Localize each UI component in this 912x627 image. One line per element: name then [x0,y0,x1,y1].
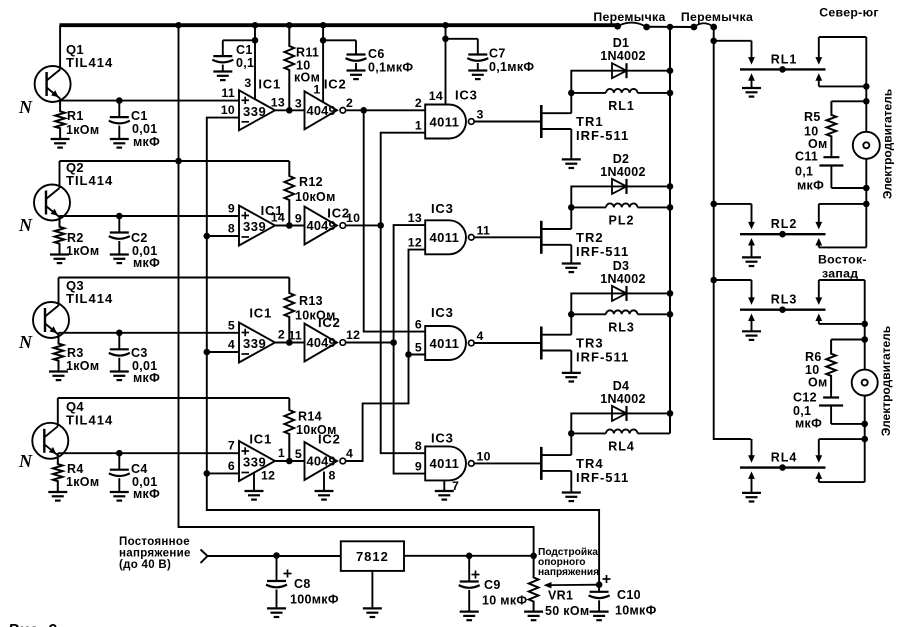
ground C8 [267,608,286,617]
node motor1 top / RL1 bottom contact [863,83,870,90]
transistor Q2 TIL414 [34,161,70,221]
svg-text:9: 9 [415,459,422,473]
svg-text:C3: C3 [131,346,148,360]
node ref bus / row3 minus [204,349,211,356]
capacitor C1 0,1 (comparator supply) [212,40,255,71]
pin label IC2 input row1 [295,96,302,110]
op-amp IC1 comparator 339 (row 1) [239,90,275,130]
svg-text:10: 10 [346,211,360,225]
resistor R3 1kOm [54,333,64,372]
svg-text:TR2: TR2 [576,230,604,245]
caption fragment [8,622,57,627]
node feed bus RL2 [710,201,717,208]
svg-text:13: 13 [271,95,285,109]
pin label IC2 input row3 [288,329,302,343]
svg-text:1кОм: 1кОм [66,123,99,137]
svg-text:запад: запад [822,267,858,281]
svg-text:Перемычка: Перемычка [593,10,665,24]
contact RL3 left-top arm [748,280,755,305]
diode D1 1N4002 [612,63,627,78]
wire ref bus to IC1 minus input row3 [207,351,239,353]
wire DC input [208,555,341,557]
wire relay coil RL3 right [638,313,671,315]
svg-text:IC3: IC3 [455,87,478,102]
wire IC2 pin1 Vcc stub [322,25,324,102]
wire IC2 pin8 ground stub [323,472,325,492]
capacitor C1 0,01 [109,101,130,139]
svg-text:C12: C12 [793,391,817,405]
svg-text:1кОм: 1кОм [66,359,99,373]
ground IC2 pin8 [315,491,334,500]
node +12V bus / row2 rail [175,158,182,165]
label C1 0,1 [236,43,254,70]
diode D4 1N4002 [612,406,627,421]
node pin3/C1 branch [252,37,259,44]
contact RL4 right-top arm [815,439,864,463]
label TR4 [576,456,629,485]
pin labels IC1 inputs row4 [228,439,235,473]
label R5 [804,110,828,151]
wire feed to RL2 contact [714,203,752,205]
label Q3 [66,278,113,306]
label C10 [615,588,657,618]
ground TR2 [562,264,581,273]
node top-bus junction x=178 [175,22,181,28]
label D2 [600,152,646,179]
svg-text:Электродвигатель: Электродвигатель [879,326,893,436]
svg-text:10кОм: 10кОм [295,190,336,204]
pin labels IC3 #4 inputs [415,439,422,473]
wire relay feed bus [714,27,751,439]
svg-text:1N4002: 1N4002 [600,165,646,179]
node row3 output junction [390,339,397,346]
ground R3 [49,372,68,381]
transistor TR3 IRF-511 [541,327,571,360]
node row4 net / IC3c pin5 [405,351,412,358]
svg-text:IRF-511: IRF-511 [576,128,629,143]
label IC1 row3 [249,306,272,321]
wire feed to RL3 contact [714,279,752,281]
svg-text:1: 1 [313,83,320,97]
inverter IC2 4049 (row 1) [305,91,346,129]
node feed bus RL1 [710,38,717,45]
pin label IC3 #2 output [477,223,491,237]
pin label IC2 input row4 [295,447,302,461]
wire IC3c pin5 [409,354,426,356]
svg-text:11: 11 [288,329,302,343]
svg-text:мкФ: мкФ [133,135,160,149]
resistor R14 10kOm [285,398,295,461]
svg-text:2: 2 [278,328,285,342]
wire diode D4 branch [571,413,670,433]
svg-text:N: N [18,451,33,471]
svg-text:C4: C4 [131,462,148,476]
input terminal chevron [201,550,208,564]
svg-text:13: 13 [408,211,422,225]
label R3 [66,346,99,373]
svg-text:TR4: TR4 [576,456,604,471]
label C9 [482,578,527,608]
wire row3 net to IC3b pin13 and IC3d pin9 [394,225,426,474]
wire Q2 emitter to IC1 input [60,215,240,217]
node motor1 bottom / C11 [863,185,870,192]
svg-text:Рис. 9: Рис. 9 [8,622,57,627]
wire IC3 #3 output to TR3 gate [474,342,541,344]
svg-text:TR3: TR3 [576,336,604,351]
node coil RL1 / right bus [667,90,674,97]
svg-text:D3: D3 [613,259,630,273]
relay coil PL2 [606,203,638,207]
label R1 [66,109,99,137]
svg-text:339: 339 [243,104,266,119]
label RL4 contact [771,451,798,465]
capacitor C2 0,01 [109,216,130,255]
svg-text:10: 10 [477,449,491,463]
resistor R12 10kOm [285,161,295,226]
ground RL1 contact [742,88,761,97]
relay coil RL3 [606,310,638,314]
relay coil RL4 [606,429,638,433]
svg-text:R6: R6 [805,350,822,364]
jumper 2 (Перемычка) [691,23,718,30]
capacitor C4 0,01 [109,453,130,492]
node TR3 drain / coil [568,311,575,318]
ground IC1 pin12 [245,491,264,500]
pin label 8 IC2 [329,469,336,483]
contact RL3 right-top arm [815,280,864,305]
pin label IC1 output row1 [271,95,285,109]
node TR4 drain / coil [568,430,575,437]
node TR1 drain / coil [568,90,575,97]
pin label IC2 output row1 [346,96,353,110]
light arrows N for Q4 [18,451,33,471]
wire IC1 pin12 ground stub [253,473,255,492]
wire ref bus to IC1 minus input row4 [207,472,239,474]
diode D3 1N4002 [612,286,627,301]
svg-text:6: 6 [415,317,422,331]
pin label 3 IC1 [244,76,251,90]
svg-text:C11: C11 [795,150,818,164]
svg-text:C6: C6 [368,47,385,61]
label D4 [600,379,646,406]
wire motor2 bottom [864,395,866,482]
label C11 [795,150,824,193]
svg-text:C8: C8 [294,577,311,591]
svg-text:Постоянное: Постоянное [119,536,190,548]
node C8 junction [273,552,280,559]
svg-text:IC1: IC1 [249,306,272,321]
transistor TR2 IRF-511 [541,221,571,254]
svg-text:мкФ: мкФ [797,179,824,193]
ground C10 [590,612,609,621]
motor 1 Электродвигатель [853,132,880,159]
nand gate IC3 4011 #2 [425,220,474,254]
svg-text:7812: 7812 [356,549,389,564]
node 7812 output / VR1 top [530,553,537,560]
node motor1 top / R5 branch [863,98,870,105]
svg-text:RL3: RL3 [771,293,798,307]
wire IC3 pin7 ground stub [443,480,445,491]
wire row4 output net to IC3b pin12 [346,250,426,461]
label PL2 [609,213,635,227]
label Q4 [66,399,113,428]
svg-text:Север-юг: Север-юг [819,6,879,20]
label R14 [296,410,337,438]
node D1 / right bus [667,67,674,74]
ground VR1 [524,612,543,621]
svg-text:N: N [18,332,33,352]
wire IC3 pin14 Vcc [445,25,447,104]
contact RL3 left-bottom arm [748,314,755,332]
svg-text:8: 8 [329,469,336,483]
transistor Q1 TIL414 [35,25,71,102]
pin labels IC3 #1 inputs [415,96,422,132]
contact RL2 right-top arm [815,204,866,230]
svg-text:PL2: PL2 [609,213,635,227]
wire bus between jumpers [647,26,694,28]
node motor1 bottom / RL2 top contact [863,201,870,208]
svg-text:1N4002: 1N4002 [600,272,646,286]
capacitor C6 0,1mkF [323,40,366,70]
wire TR4 source down [570,471,572,493]
node emitter/C3 junction [116,330,123,337]
svg-text:9: 9 [295,212,302,226]
node pin1/C6 branch [320,37,327,44]
svg-text:4011: 4011 [430,456,460,471]
wire +12V bus (x=178) [179,25,534,556]
svg-text:(до 40 В): (до 40 В) [119,559,171,571]
nand gate IC3 4011 #3 [425,326,474,360]
node top-bus junction x=323 [320,22,326,28]
node VR1 wiper / C10 [596,581,603,588]
contact RL1 left-bottom arm [748,73,755,88]
label Электродвигатель (motor2) [879,326,893,436]
svg-text:0,1: 0,1 [795,165,813,179]
label IC3 #2 [431,201,454,216]
wire feed to RL1 contact [714,40,752,42]
label C6 [368,47,413,75]
svg-text:C2: C2 [131,231,148,245]
pin label IC2 output row4 [346,447,353,461]
wire diode D2 branch [571,186,670,207]
svg-text:8: 8 [415,439,422,453]
svg-text:10 мкФ: 10 мкФ [482,594,527,608]
ground IC3 pin7 [435,491,454,500]
svg-text:4049: 4049 [307,335,336,350]
label Q2 [66,160,113,188]
ground C1 0,1 [213,72,232,81]
svg-text:10кОм: 10кОм [295,309,336,323]
pin labels IC1 inputs row2 [228,202,235,236]
svg-text:12: 12 [261,469,275,483]
svg-text:4: 4 [477,329,484,343]
wire relay coil RL1 left [571,92,606,94]
pin label IC3 #1 output [477,108,484,122]
capacitor C9 10mkF [459,556,480,612]
svg-text:10кОм: 10кОм [296,423,337,437]
label RL3 contact [771,293,798,307]
svg-text:4011: 4011 [430,336,460,351]
wire IC1 pin3 Vcc stub [254,25,256,99]
svg-text:4049: 4049 [307,103,336,118]
node row2 output junction [377,222,384,229]
pin label 14 IC3 [429,89,443,103]
svg-text:R11: R11 [296,46,319,60]
wire IC1 out to IC2 in row1 [275,109,305,111]
svg-text:RL4: RL4 [608,439,635,453]
svg-text:1: 1 [278,446,285,460]
pin labels IC3 #2 inputs [408,211,422,250]
resistor R1 1kOm [55,101,65,139]
label R11 [294,46,320,85]
node R12 pull-up junction [286,222,293,229]
ground RL3 contact [742,331,761,340]
node row1 output junction [360,107,367,114]
svg-text:C9: C9 [484,578,501,592]
svg-text:D4: D4 [613,379,630,393]
ground 7812 [363,608,382,617]
wire Q1 emitter to IC1 input [60,100,239,102]
wire diode D1 branch [571,71,670,93]
wire motor2 top feed [864,280,866,370]
wire row2 output [346,224,381,226]
label R12 [295,175,336,204]
ground C9 [460,612,479,621]
node top-bus junction x=255 [252,22,258,28]
resistor R2 1kOm [55,216,65,255]
label R2 [66,231,99,258]
wire TR1 drain up [570,93,572,113]
svg-text:Перемычка: Перемычка [681,10,753,24]
wire relay coil RL2 left [571,206,606,208]
label IC1 row4 [249,432,272,447]
svg-text:R14: R14 [298,410,322,424]
node D2 / right bus [667,183,674,190]
contact RL2 left-top arm [748,204,755,230]
pin label 1 IC2 [313,83,320,97]
capacitor C10 10mkF [589,575,611,612]
node D4 / right bus [667,410,674,417]
resistor R11 10kOm [285,25,295,110]
ground R2 [50,255,69,264]
svg-text:RL3: RL3 [608,320,635,334]
svg-text:2: 2 [346,96,353,110]
svg-text:R1: R1 [67,109,84,123]
label D3 [600,259,646,286]
svg-text:RL1: RL1 [771,52,798,66]
svg-text:4011: 4011 [430,230,460,245]
svg-text:мкФ: мкФ [133,371,160,385]
pin label IC1 output row2 [271,211,285,225]
relay contact RL3 bar [740,306,826,313]
node bus / right driver bus [667,24,673,30]
svg-text:3: 3 [477,108,484,122]
svg-text:11: 11 [477,223,491,237]
svg-text:11: 11 [221,86,235,100]
svg-text:мкФ: мкФ [795,417,822,431]
pin label IC2 output row3 [346,328,360,342]
pin label IC1 output row3 [278,328,285,342]
wire IC1 out to IC2 in row2 [275,225,305,227]
svg-text:RL2: RL2 [771,217,798,231]
svg-text:339: 339 [243,336,266,351]
svg-text:4: 4 [346,447,353,461]
svg-text:D2: D2 [613,152,630,166]
svg-text:R13: R13 [299,294,323,308]
pin labels IC3 #3 inputs [415,317,422,354]
label VR1 [545,589,589,619]
svg-text:Ом: Ом [808,376,828,390]
op-amp IC1 comparator 339 (row 3) [239,323,275,363]
svg-text:5: 5 [415,340,422,354]
wire row3 collector rail [59,277,290,279]
label IC2 row1 [324,76,347,91]
pin label IC1 output row4 [278,446,285,460]
wire relay coil RL4 right [638,432,671,434]
label C8 [290,577,339,607]
svg-text:14: 14 [271,211,285,225]
label RL3 [608,320,635,334]
regulator 7812 [341,541,404,571]
svg-text:VR1: VR1 [548,589,573,603]
svg-text:IC2: IC2 [324,76,347,91]
svg-text:6: 6 [228,459,235,473]
wire TR3 drain up [570,314,572,334]
svg-text:1N4002: 1N4002 [600,49,646,63]
wire IC1 out to IC2 in row3 [275,342,305,344]
svg-text:1N4002: 1N4002 [600,392,646,406]
snubber R5 C11 branch [819,101,866,188]
svg-text:C7: C7 [489,47,506,61]
wire +V top supply bus [60,23,618,27]
node motor2 top / R6 branch [861,336,868,343]
transistor TR4 IRF-511 [541,447,571,480]
svg-text:мкФ: мкФ [133,487,160,501]
label RL1 contact [771,52,798,66]
transistor TR1 IRF-511 [541,105,571,138]
node R11 pull-up junction [286,107,293,114]
svg-text:R4: R4 [67,462,84,476]
label C1 [131,109,160,149]
svg-text:TIL414: TIL414 [66,291,113,306]
node top-bus junction x=445 [442,22,448,28]
pin label 12 IC1 [261,469,275,483]
node R14 pull-up junction [286,458,293,465]
node emitter/C1 junction [116,97,123,104]
diode D2 1N4002 [612,179,627,194]
svg-text:10: 10 [221,103,235,117]
svg-text:50 кОм: 50 кОм [545,604,589,618]
transistor Q4 TIL414 [32,398,68,459]
svg-text:0,1мкФ: 0,1мкФ [489,60,534,74]
wire motor1 bottom [865,159,867,248]
node emitter/C4 junction [116,450,123,457]
node D3 / right bus [667,290,674,297]
node motor2 bottom / C12 [861,421,868,428]
svg-text:10мкФ: 10мкФ [615,604,657,618]
ground C4 [110,492,129,501]
wire row1 net down to IC3c pin6 [364,110,426,331]
ground RL2 contact [742,257,761,266]
ground C1 [110,139,129,148]
wire row1 output to IC3a pin2 [346,109,426,111]
pin label IC2 output row2 [346,211,360,225]
svg-text:RL4: RL4 [771,451,798,465]
node R13 pull-up junction [286,339,293,346]
svg-text:12: 12 [346,328,360,342]
motor 2 Электродвигатель [852,370,878,396]
svg-text:C10: C10 [617,588,641,602]
